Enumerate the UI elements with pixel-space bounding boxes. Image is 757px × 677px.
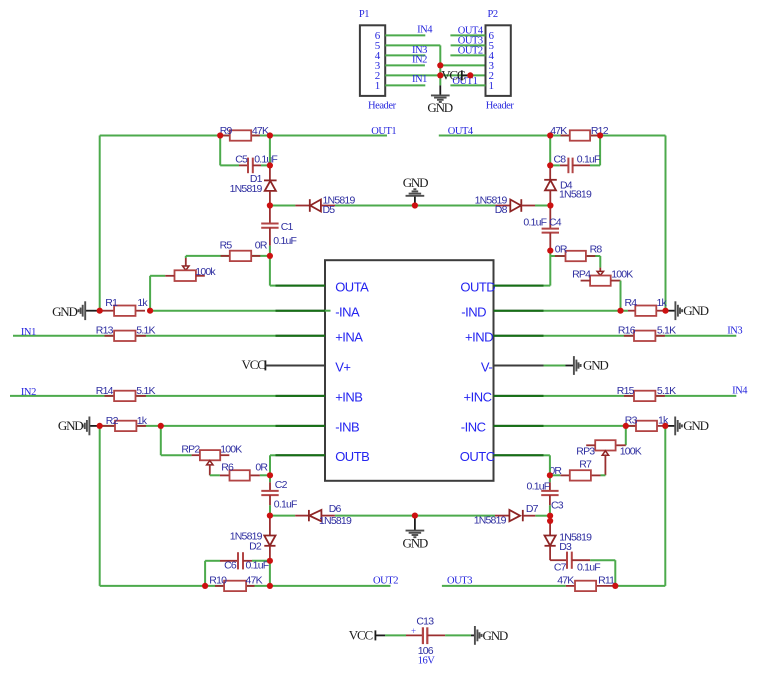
wire R8 to RP4 wiper <box>599 256 601 268</box>
junction dot <box>437 62 443 68</box>
junction dot <box>662 308 668 314</box>
svg-text:OUT2: OUT2 <box>458 46 483 57</box>
svg-text:0R: 0R <box>255 462 268 474</box>
svg-text:IN4: IN4 <box>732 386 748 397</box>
svg-text:D7: D7 <box>526 503 539 515</box>
wire column to OUTD <box>549 251 551 286</box>
wire C6 to R10 <box>205 560 220 562</box>
svg-text:1k: 1k <box>137 415 148 427</box>
wire P2.1 OUT1 <box>450 84 485 86</box>
junction dot <box>97 308 103 314</box>
wire +INC row <box>494 395 544 397</box>
U1 right pin OUTD <box>460 279 543 294</box>
wire GND to D8 <box>415 205 496 207</box>
ground GND bottom middle <box>403 516 428 551</box>
svg-text:R14: R14 <box>96 385 114 397</box>
svg-text:R13: R13 <box>96 325 114 337</box>
resistor R14 <box>96 385 156 401</box>
wire IN2 row <box>10 395 276 397</box>
svg-text:VCC: VCC <box>242 357 266 372</box>
ground GND header <box>427 85 452 115</box>
svg-text:RP2: RP2 <box>181 443 200 455</box>
svg-text:0.1uF: 0.1uF <box>527 480 550 492</box>
svg-text:P2: P2 <box>488 9 498 20</box>
svg-text:GND: GND <box>683 418 708 433</box>
wire R8 row <box>550 255 600 257</box>
svg-text:OUTD: OUTD <box>460 279 495 294</box>
resistor R15 <box>617 385 676 401</box>
svg-text:D8: D8 <box>495 204 508 216</box>
svg-text:R10: R10 <box>209 575 227 587</box>
svg-text:100K: 100K <box>220 443 242 455</box>
wire C6 right <box>252 560 270 562</box>
wire P2.4 OUT2 <box>450 54 485 56</box>
wire -IND row <box>494 310 544 312</box>
diode D3 <box>545 521 593 560</box>
U1 right pin -IND <box>461 305 543 320</box>
capacitor C5 <box>239 158 261 174</box>
svg-text:R5: R5 <box>220 239 233 251</box>
ground GND at V- <box>544 356 609 375</box>
junction dot <box>412 202 418 208</box>
svg-text:-IND: -IND <box>461 305 486 320</box>
ground GND at R3 <box>665 417 708 436</box>
potentiometer RP2 <box>181 443 242 475</box>
U1 left pin -INA <box>276 305 361 320</box>
svg-text:-INB: -INB <box>335 420 359 435</box>
svg-text:GND: GND <box>583 358 608 373</box>
capacitor C6 <box>220 552 252 569</box>
wire R5 to pot wiper <box>185 256 187 258</box>
junction dot <box>158 423 164 429</box>
svg-text:OUTA: OUTA <box>335 279 369 294</box>
diode D7 <box>474 503 539 526</box>
wire right rail vertical <box>665 136 667 311</box>
svg-text:D2: D2 <box>249 540 262 552</box>
wire R12 down to C8 <box>599 136 601 166</box>
junction dot <box>202 583 208 589</box>
junction dot <box>267 583 273 589</box>
svg-text:C13: C13 <box>416 615 434 627</box>
svg-text:R2: R2 <box>106 415 119 427</box>
svg-text:0R: 0R <box>555 244 568 256</box>
diode D8 <box>475 194 535 216</box>
junction dot <box>547 518 553 524</box>
svg-text:5.1K: 5.1K <box>136 385 155 397</box>
wire top rail left <box>100 135 221 137</box>
svg-text:100K: 100K <box>620 445 642 457</box>
capacitor C4 <box>542 206 559 251</box>
svg-text:0.1uF: 0.1uF <box>523 217 546 229</box>
connector P1 <box>359 9 397 112</box>
resistor R1 <box>100 297 149 316</box>
svg-text:V+: V+ <box>335 359 350 374</box>
svg-text:RP3: RP3 <box>576 445 595 457</box>
wire VCC to C13 <box>385 634 406 636</box>
resistor R9 <box>220 125 269 141</box>
svg-text:IN1: IN1 <box>412 74 427 85</box>
U1 right pin V- <box>481 359 544 374</box>
svg-text:IN1: IN1 <box>21 327 36 338</box>
svg-text:1N5819: 1N5819 <box>474 514 507 526</box>
capacitor C13 <box>406 615 445 666</box>
junction dot <box>617 308 623 314</box>
op-amp U1 body <box>325 260 494 481</box>
svg-text:16V: 16V <box>418 655 436 666</box>
junction dot <box>547 132 553 138</box>
svg-text:1N5819: 1N5819 <box>230 183 263 195</box>
U1 left pin V+ <box>335 359 350 374</box>
resistor R3 <box>625 414 669 431</box>
resistor R4 <box>625 297 668 316</box>
svg-text:47K: 47K <box>252 125 269 137</box>
junction dot <box>267 513 273 519</box>
svg-text:GND: GND <box>52 304 77 319</box>
wire -INC to RP3 <box>625 426 627 445</box>
wire OUTB <box>269 455 271 475</box>
wire R9 span <box>220 135 270 137</box>
svg-text:OUT1: OUT1 <box>371 126 396 137</box>
potentiometer RP3 <box>576 440 642 475</box>
wire D8 to D4 node <box>535 205 550 207</box>
wire C5 to column <box>261 164 270 166</box>
wire P1.1 IN1 <box>385 84 425 86</box>
svg-text:5.1K: 5.1K <box>136 325 155 337</box>
resistor R10 <box>209 575 262 592</box>
diode D2 <box>230 516 276 561</box>
svg-text:+IND: +IND <box>465 330 493 345</box>
svg-text:Header: Header <box>368 100 397 111</box>
wire to C2 <box>269 475 271 482</box>
svg-text:0.1uF: 0.1uF <box>577 154 600 166</box>
diode D1 <box>230 165 277 205</box>
junction dot <box>97 423 103 429</box>
svg-text:GND: GND <box>683 303 708 318</box>
U1 left pin -INB <box>276 420 360 435</box>
svg-text:C3: C3 <box>551 500 564 512</box>
svg-text:0.1uF: 0.1uF <box>274 498 297 510</box>
svg-text:GND: GND <box>403 175 428 190</box>
wire D6 left <box>270 515 295 517</box>
svg-text:C4: C4 <box>549 217 562 229</box>
capacitor C3 <box>541 482 558 505</box>
svg-text:1k: 1k <box>657 297 668 309</box>
diode D5 <box>295 194 355 216</box>
junction dot <box>267 202 273 208</box>
ground GND at R2 <box>58 417 100 436</box>
svg-text:OUTC: OUTC <box>460 449 495 464</box>
wire D6 to GND <box>335 515 415 517</box>
junction dot <box>547 202 553 208</box>
junction dot <box>662 423 668 429</box>
wire OUTC <box>494 454 544 456</box>
svg-text:-INA: -INA <box>335 305 360 320</box>
wire R5 row <box>186 255 270 257</box>
junction dot <box>547 248 553 254</box>
wire R2 to RP2 <box>160 426 162 455</box>
svg-text:1: 1 <box>375 80 381 92</box>
U1 right pin +IND <box>465 330 543 345</box>
svg-text:P1: P1 <box>359 9 369 20</box>
svg-text:C8: C8 <box>554 154 567 166</box>
wire RP4 to -IND <box>620 281 622 311</box>
junction dot <box>267 162 273 168</box>
svg-text:C7: C7 <box>554 561 567 573</box>
svg-text:0.1uF: 0.1uF <box>246 560 269 572</box>
wire D5 to GND <box>335 205 415 207</box>
ground GND at R4 <box>666 301 709 320</box>
svg-text:R6: R6 <box>221 462 234 474</box>
wire OUT1 top <box>270 135 387 137</box>
svg-text:OUT2: OUT2 <box>373 575 398 586</box>
resistor R2 <box>100 415 148 431</box>
junction dot <box>597 132 603 138</box>
wire P1.2 to P2.2 <box>385 74 484 76</box>
wire P1.3 IN2 <box>385 64 425 66</box>
wire to C5 <box>219 136 221 166</box>
svg-text:R7: R7 <box>579 459 592 471</box>
ground GND top middle <box>403 175 428 206</box>
resistor R16 <box>618 325 676 341</box>
svg-text:RP4: RP4 <box>572 269 591 281</box>
junction dot <box>547 162 553 168</box>
junction dot <box>217 132 223 138</box>
wire P1.5 to GND rail <box>385 44 440 46</box>
wire column top right <box>549 136 551 166</box>
capacitor C8 <box>560 158 590 174</box>
svg-text:IN2: IN2 <box>21 387 36 398</box>
capacitor C2 <box>261 482 278 505</box>
svg-text:0.1uF: 0.1uF <box>273 235 296 247</box>
junction dot <box>467 72 473 78</box>
svg-text:R8: R8 <box>590 244 603 256</box>
svg-text:D5: D5 <box>323 204 336 216</box>
svg-text:R1: R1 <box>105 297 118 309</box>
svg-text:+INC: +INC <box>464 390 492 405</box>
U1 right pin -INC <box>461 420 544 435</box>
wire R7 to junction <box>550 474 560 476</box>
junction dot <box>147 308 153 314</box>
svg-text:IN2: IN2 <box>412 54 427 65</box>
wire C8 to column <box>550 164 560 166</box>
wire GND to D7 <box>415 515 495 517</box>
wire R6 to junction <box>260 474 270 476</box>
wire OUT4 top <box>439 135 550 137</box>
svg-text:0.1uF: 0.1uF <box>577 561 600 573</box>
svg-text:GND: GND <box>58 418 83 433</box>
wire pot to R1 junction <box>150 275 165 277</box>
resistor R5 <box>220 239 268 261</box>
ground GND bottom right <box>471 626 508 645</box>
wire R10 span <box>205 585 270 587</box>
svg-text:100K: 100K <box>611 269 633 281</box>
wire -INB row <box>161 425 276 427</box>
svg-text:GND: GND <box>483 628 508 643</box>
wire R12 to right rail <box>600 135 665 137</box>
svg-text:VCC: VCC <box>349 628 373 643</box>
svg-text:-INC: -INC <box>461 420 486 435</box>
junction dot <box>267 132 273 138</box>
svg-text:V-: V- <box>481 359 492 374</box>
svg-text:OUTB: OUTB <box>335 449 369 464</box>
wire IN1 row <box>13 335 276 337</box>
wire OUT2 <box>270 585 391 587</box>
svg-text:C6: C6 <box>224 560 237 572</box>
wire left rail bottom <box>99 426 101 586</box>
svg-text:+INB: +INB <box>335 390 362 405</box>
svg-text:+: + <box>411 626 416 636</box>
wire R12 span <box>550 135 600 137</box>
svg-text:D3: D3 <box>559 541 572 553</box>
svg-text:0R: 0R <box>255 239 268 251</box>
svg-text:5.1K: 5.1K <box>657 325 676 337</box>
svg-text:IN3: IN3 <box>727 325 742 336</box>
power port VCC top <box>441 68 470 83</box>
svg-text:C2: C2 <box>275 479 288 491</box>
capacitor C7 <box>550 552 600 574</box>
wire D7 right <box>535 515 550 517</box>
svg-text:1N5819: 1N5819 <box>559 189 592 201</box>
U1 right pin +INC <box>464 390 544 405</box>
svg-text:IN4: IN4 <box>417 24 433 35</box>
svg-text:47K: 47K <box>246 575 263 587</box>
power port VCC bottom <box>349 628 385 643</box>
diode D4 <box>544 165 592 205</box>
potentiometer RP4 <box>572 268 633 286</box>
svg-text:1k: 1k <box>137 297 148 309</box>
diode D6 <box>295 503 352 527</box>
svg-text:R4: R4 <box>625 297 638 309</box>
junction dot <box>612 583 618 589</box>
svg-text:VCC: VCC <box>441 68 465 83</box>
resistor R7 <box>560 459 600 481</box>
wire C13 to GND <box>445 634 471 636</box>
wire C7 to R11 <box>590 559 615 561</box>
resistor R12 <box>550 125 609 141</box>
svg-text:C5: C5 <box>235 154 248 166</box>
svg-text:+INA: +INA <box>335 330 363 345</box>
wire D2 down to R10 <box>269 561 271 586</box>
wire P1.6 IN4 <box>385 34 425 36</box>
svg-text:C1: C1 <box>281 221 294 233</box>
wire R2 span <box>100 425 161 427</box>
svg-text:R16: R16 <box>618 325 636 337</box>
wire OUT3 <box>442 585 566 587</box>
wire column top <box>269 136 271 166</box>
wire to C3 <box>549 475 551 482</box>
svg-text:100k: 100k <box>195 266 216 278</box>
junction dot <box>412 513 418 519</box>
junction dot <box>547 513 553 519</box>
U1 left pin +INB <box>276 390 363 405</box>
wire -INC row <box>494 425 544 427</box>
connector P2 <box>486 9 515 112</box>
wire P2.5 OUT3 <box>451 44 486 46</box>
wire rail to P2.3 <box>440 64 484 66</box>
wire P2.6 OUT4 <box>450 34 485 36</box>
svg-text:1: 1 <box>489 80 495 92</box>
U1 right pin OUTC <box>460 449 544 464</box>
U1 left pin OUTA <box>276 279 370 294</box>
wire C1 to R5 junction <box>269 246 271 256</box>
junction dot <box>437 72 443 78</box>
resistor R13 <box>96 325 156 341</box>
wire right rail bottom <box>664 426 666 586</box>
svg-text:OUT3: OUT3 <box>447 575 472 586</box>
wire C3 to D-node <box>549 505 551 515</box>
svg-text:47K: 47K <box>557 575 574 587</box>
power port VCC at V+ <box>242 357 325 372</box>
svg-text:R15: R15 <box>617 385 635 397</box>
U1 left pin +INA <box>276 330 364 345</box>
wire P1.4 IN3 <box>385 54 425 56</box>
svg-text:1N5819: 1N5819 <box>319 515 352 527</box>
junction dot <box>623 423 629 429</box>
wire left rail vertical <box>99 136 101 311</box>
resistor R8 <box>555 244 603 262</box>
svg-text:GND: GND <box>403 536 428 551</box>
wire R5 junction to OUTA <box>269 256 271 286</box>
U1 left pin OUTB <box>276 449 370 464</box>
svg-text:OUT4: OUT4 <box>448 126 474 137</box>
junction dot <box>267 472 273 478</box>
resistor R11 <box>557 575 615 592</box>
svg-text:Header: Header <box>486 100 515 111</box>
wire RP2 wiper to R6 <box>210 474 220 476</box>
capacitor C1 <box>261 206 278 246</box>
svg-text:GND: GND <box>427 100 452 115</box>
wire vertical GND rail <box>439 45 441 85</box>
resistor R6 <box>220 462 269 481</box>
ground GND at R1 <box>52 301 100 320</box>
wire RP3 wiper to R7 <box>601 474 606 476</box>
wire +IND row <box>494 335 544 337</box>
junction dot <box>547 472 553 478</box>
svg-text:5.1K: 5.1K <box>657 385 676 397</box>
wire -INA row <box>150 310 275 312</box>
svg-text:D6: D6 <box>329 503 342 515</box>
wire C2 to D-node <box>269 505 271 515</box>
svg-text:0.1uF: 0.1uF <box>254 154 277 166</box>
junction dot <box>267 253 273 259</box>
potentiometer 100k channel A <box>165 258 216 281</box>
junction dot <box>267 558 273 564</box>
wire D5 left <box>270 205 296 207</box>
